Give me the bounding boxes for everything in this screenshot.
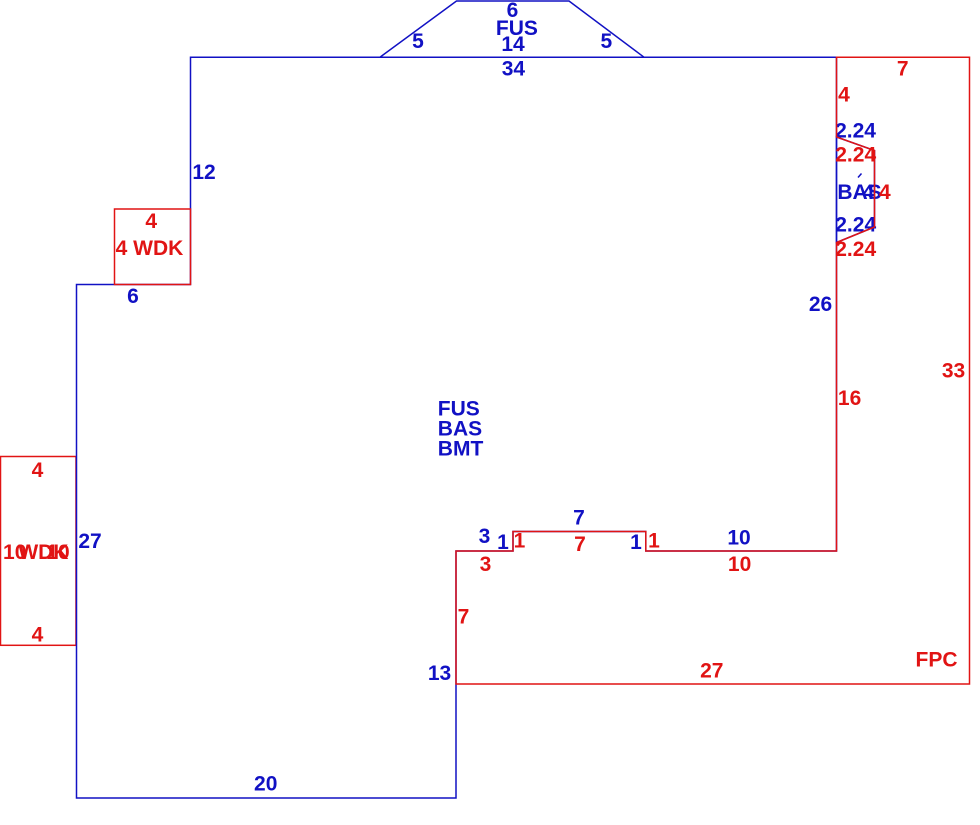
svg-text:1: 1: [630, 531, 642, 554]
svg-text:26: 26: [809, 293, 832, 316]
svg-text:4: 4: [32, 623, 44, 646]
svg-text:27: 27: [700, 659, 723, 682]
svg-text:4 WDK: 4 WDK: [116, 237, 184, 260]
svg-text:7: 7: [458, 605, 470, 628]
deck WDK (left side rectangle, drawn under blue wall): [1, 457, 77, 646]
svg-text:33: 33: [942, 360, 965, 383]
svg-text:5: 5: [412, 30, 424, 53]
svg-text:7: 7: [574, 533, 586, 556]
svg-text:16: 16: [838, 387, 861, 410]
svg-text:3: 3: [479, 525, 491, 548]
svg-text:6: 6: [127, 285, 139, 308]
svg-text:4: 4: [32, 459, 44, 482]
main outline FUS/BAS/BMT (blue polygon): [77, 57, 837, 798]
porch FPC outline (red polygon): [456, 57, 970, 684]
upper storey trapezoid FUS (blue): [380, 1, 644, 57]
svg-text:20: 20: [254, 773, 277, 796]
tick mark (small blue apostrophe above BAS): [858, 174, 862, 178]
svg-text:10: 10: [46, 541, 69, 564]
svg-text:2.24: 2.24: [835, 144, 876, 167]
svg-text:4: 4: [838, 83, 850, 106]
svg-text:27: 27: [78, 530, 101, 553]
svg-text:2.24: 2.24: [835, 238, 876, 261]
svg-text:2.24: 2.24: [835, 213, 876, 236]
svg-text:13: 13: [428, 662, 451, 685]
bay window BAS (blue, mostly hidden under red): [837, 137, 875, 243]
svg-text:5: 5: [601, 30, 613, 53]
svg-text:BMT: BMT: [438, 437, 484, 460]
svg-text:1: 1: [648, 530, 660, 553]
svg-text:4: 4: [879, 181, 891, 204]
svg-text:3: 3: [480, 553, 492, 576]
svg-text:10: 10: [728, 553, 751, 576]
svg-text:4: 4: [863, 181, 875, 204]
svg-text:34: 34: [502, 58, 526, 81]
svg-text:1: 1: [514, 530, 526, 553]
deck WDK (top rectangle, red over blue): [115, 209, 191, 285]
svg-text:10: 10: [727, 527, 750, 550]
svg-text:4: 4: [145, 210, 157, 233]
svg-text:7: 7: [573, 507, 585, 530]
svg-text:14: 14: [501, 33, 525, 56]
svg-text:12: 12: [192, 161, 215, 184]
svg-text:7: 7: [897, 57, 909, 80]
svg-text:FPC: FPC: [916, 649, 958, 672]
